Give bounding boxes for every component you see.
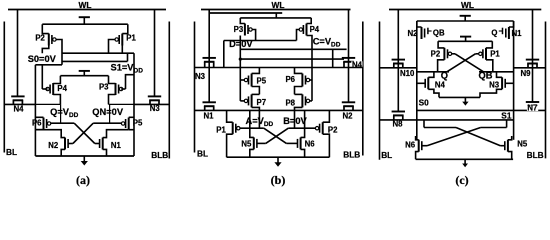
wire row BL-Q (a) xyxy=(4,103,35,105)
caption (b) xyxy=(271,173,286,187)
caption (c) xyxy=(455,173,468,187)
transistor N10 (c) xyxy=(392,60,405,68)
label S0=0V (a) xyxy=(28,54,57,64)
label P2 (b) xyxy=(328,126,338,135)
wire P1 source (b) xyxy=(227,110,233,122)
wire P2 drain (c) xyxy=(438,60,445,72)
wire P4 gate lead (a) xyxy=(42,88,47,90)
wire VDD rail (c top) xyxy=(417,20,514,22)
label P2 (a) xyxy=(35,34,45,43)
wire N4 source up (c) xyxy=(428,72,434,78)
wire P8 drain / node B drop (b) xyxy=(295,107,303,128)
transistor P1 (c) xyxy=(479,48,486,60)
wire P1 drain (a) xyxy=(121,46,123,54)
wire P6 drain (a) xyxy=(35,129,43,131)
wire WL drop left (a) xyxy=(17,10,19,97)
node S1 wire right (a) xyxy=(62,53,128,61)
power VDD (a top) xyxy=(79,17,90,24)
wire N6 gate lead (b) xyxy=(286,142,297,144)
wire P2 gate lead (c) xyxy=(452,53,455,55)
wire P2 drain (b) xyxy=(323,134,330,157)
transistor P4 (a) xyxy=(46,83,53,95)
transistor N6 (b) xyxy=(298,137,301,149)
transistor N5 (c) xyxy=(505,140,508,152)
transistor N2 (b) xyxy=(342,102,355,110)
svg-text:QB: QB xyxy=(479,71,493,81)
wire row BLB side (c) xyxy=(514,67,546,69)
wire N1 gate lead (a) xyxy=(95,143,100,145)
transistor N7 (c) xyxy=(526,102,539,110)
wire BL (a) xyxy=(3,22,5,153)
svg-text:N1: N1 xyxy=(204,111,215,120)
transistor N1 (c) xyxy=(506,27,509,39)
label N2 (a) xyxy=(48,141,59,150)
node QB wire (c) xyxy=(479,71,514,73)
wire N1 source (c) xyxy=(509,21,514,27)
svg-text:P3: P3 xyxy=(99,83,109,92)
power VDD stem (b) xyxy=(275,13,277,18)
wire right gate column (b) xyxy=(311,59,313,101)
wire P5 drain (b) xyxy=(252,87,260,95)
wire P6 gate lead (b) xyxy=(310,79,312,81)
wire X right horiz (c) xyxy=(481,127,507,129)
label WL (b) xyxy=(272,0,285,10)
cross wire to N5 gate (c) xyxy=(456,128,500,146)
wire P4 gate to D (b) xyxy=(297,30,300,41)
wire long left column (c) xyxy=(416,21,418,140)
svg-text:BLB: BLB xyxy=(151,150,168,160)
wire N5 drain up (b) xyxy=(250,110,254,137)
label N3 (a) xyxy=(150,104,161,113)
svg-text:P6: P6 xyxy=(32,118,42,127)
label BL (c) xyxy=(381,150,392,160)
wire N5 drain up (c) xyxy=(508,136,512,140)
wire P5 source (a) xyxy=(129,116,134,118)
wire WL drop left (c) xyxy=(397,10,399,112)
label N4 (b) xyxy=(351,60,362,69)
label QN=0V (a) xyxy=(92,107,124,117)
svg-text:N4: N4 xyxy=(435,81,446,90)
svg-text:N6: N6 xyxy=(405,140,416,149)
transistor P5 (b) xyxy=(244,74,251,87)
wire P1 source (c) xyxy=(486,41,492,48)
wire P5 source (b) xyxy=(252,68,260,74)
transistor N4 (a) xyxy=(11,96,24,104)
svg-text:N3: N3 xyxy=(489,81,500,90)
wire bottom rail (b) xyxy=(227,156,330,158)
wire P6 source (a) xyxy=(35,116,43,118)
label P7 (b) xyxy=(257,98,267,107)
label P1 (c) xyxy=(490,50,500,59)
wire P3 drain (a) xyxy=(109,95,116,105)
label P2 (c) xyxy=(431,50,441,59)
wire P1 source (a) xyxy=(122,24,128,33)
node wire gates (b) xyxy=(240,58,344,60)
transistor P5 (a) xyxy=(121,118,128,130)
label S1=VDD (a) xyxy=(111,63,144,75)
wire D drop to N3 row (b) xyxy=(223,41,225,68)
svg-text:P4: P4 xyxy=(57,84,67,93)
wire WL drop right (a) xyxy=(154,10,156,97)
node N8 row (c) xyxy=(380,119,514,121)
label P1 (a) xyxy=(126,34,136,43)
transistor N6 (c) xyxy=(419,140,422,152)
transistor P4 (b) xyxy=(299,24,306,36)
wire P3 gate column (a) xyxy=(126,75,135,89)
label N9 (c) xyxy=(521,69,532,78)
node QN wire (a) xyxy=(109,103,135,105)
transistor N1 (b) xyxy=(203,102,216,110)
label BLB (a) xyxy=(151,150,168,160)
transistor N3 (c) xyxy=(502,77,505,89)
label P5 (a) xyxy=(133,118,143,127)
wire P1 drain (b) xyxy=(227,134,233,157)
wire X left drop (c) xyxy=(423,120,425,128)
wire N6 gate lead (c) xyxy=(422,145,427,147)
svg-text:P2: P2 xyxy=(431,50,441,59)
label N3 (c) xyxy=(489,81,500,90)
wire P2 source (c) xyxy=(438,41,444,48)
label P3 (a) xyxy=(99,83,109,92)
label N1 (a) xyxy=(111,141,122,150)
wire WL drop left (b) xyxy=(208,10,210,103)
svg-text:P2: P2 xyxy=(328,126,338,135)
wire WL drop right (c) xyxy=(532,10,534,103)
wire bottom rail (c) xyxy=(416,158,513,160)
wire X left horiz (c) xyxy=(424,127,456,129)
transistor P6 (b) xyxy=(302,74,309,87)
transistor P2 (a) xyxy=(49,34,56,46)
svg-text:P5: P5 xyxy=(257,77,267,86)
cross wire to N6 gate (c) xyxy=(427,128,481,146)
svg-text:N7: N7 xyxy=(527,104,537,113)
wire N3 drain down (c) xyxy=(480,89,502,97)
wire P2 gate to S nodes (a) xyxy=(56,40,62,65)
wire C drop to N4 row (b) xyxy=(332,49,334,67)
label N4 (a) xyxy=(14,104,25,113)
label A=VDD (b) xyxy=(246,116,274,128)
svg-text:P1: P1 xyxy=(216,126,226,135)
wire virtual gnd (c) xyxy=(439,96,480,98)
transistor P8 (b) xyxy=(302,94,309,107)
cross wire Q to N1 gate (a) xyxy=(74,123,95,143)
wire bottom rail (a) xyxy=(35,155,134,157)
wire N6 source (c) xyxy=(416,152,419,160)
wire P7 drain / node A drop (b) xyxy=(252,107,260,128)
svg-text:WL: WL xyxy=(272,0,285,10)
wire left gate column (b) xyxy=(239,36,241,101)
wire N6 drain up (b) xyxy=(301,110,305,137)
wire P6 drain (b) xyxy=(295,87,303,95)
svg-text:D=0V: D=0V xyxy=(229,39,253,49)
label QB (c mid) xyxy=(479,71,493,81)
svg-text:BLB: BLB xyxy=(343,150,360,160)
wire N5 source (c) xyxy=(508,152,512,160)
ground (c bottom) xyxy=(462,159,468,167)
label N4 (c) xyxy=(435,81,446,90)
svg-text:N2: N2 xyxy=(343,111,354,120)
label Q=VDD (a) xyxy=(50,107,79,119)
wire N2 source (c) xyxy=(417,21,422,27)
transistor P2 (b) xyxy=(315,122,322,134)
transistor N2 (c) xyxy=(422,27,425,39)
wire BLB (a) xyxy=(168,22,170,159)
label S0 (c) xyxy=(419,98,430,108)
wire P3 source (b) xyxy=(240,18,245,24)
wire P1 gate (a) xyxy=(109,40,115,54)
label N5 (b) xyxy=(241,140,252,149)
net flag Q (c top) xyxy=(499,28,503,35)
label N3 (b) xyxy=(195,72,206,81)
node C wire (b) xyxy=(240,48,346,50)
label N7 (c) xyxy=(527,104,538,113)
wire N2 gate lead (a) xyxy=(68,143,73,145)
wire P1 gate lead (c) xyxy=(475,53,478,55)
wire P1 drain (c) xyxy=(486,60,493,72)
cross wire B to N5 gate (b) xyxy=(266,128,289,143)
wire P4 gate column (a) xyxy=(41,65,43,89)
transistor N5 (b) xyxy=(254,137,257,149)
wire row2 (b) xyxy=(195,109,363,111)
wire BLB (c) xyxy=(545,22,547,159)
wire P6 source (b) xyxy=(295,68,303,74)
svg-text:S0: S0 xyxy=(419,98,430,108)
wire N6 source (b) xyxy=(301,149,305,157)
node S1 wire left (a) xyxy=(35,64,62,66)
cross wire A to N6 gate (b) xyxy=(264,128,287,143)
label P4 (a) xyxy=(57,84,67,93)
wire P5 drain (a) xyxy=(129,129,134,131)
transistor N9 (c) xyxy=(526,60,539,68)
node Q wire (c) xyxy=(417,71,449,73)
label BLB (c) xyxy=(527,150,544,160)
svg-text:P8: P8 xyxy=(285,98,295,107)
wire N1 source (a) xyxy=(103,149,107,156)
wire P3 gate lead (a) xyxy=(121,88,125,90)
label N5 (c) xyxy=(517,140,528,149)
wire N2 source (a) xyxy=(61,149,65,156)
node S0/S1 row (c) xyxy=(417,109,546,111)
wire BLB (b) xyxy=(362,22,364,156)
svg-text:BLB: BLB xyxy=(527,150,544,160)
label BL (a) xyxy=(6,147,17,157)
svg-text:P2: P2 xyxy=(35,34,45,43)
wire left column Q (a) xyxy=(34,65,36,156)
wire P8 gate lead (b) xyxy=(310,100,312,102)
ground (a) xyxy=(81,156,88,166)
label BLB (b) xyxy=(343,150,360,160)
wire P7 gate lead (b) xyxy=(240,100,244,102)
cross wire P1 gate to Q (c) xyxy=(447,54,476,72)
wire P7 source (b) xyxy=(252,93,260,95)
svg-text:S0=0V: S0=0V xyxy=(28,54,57,64)
label N10 (c) xyxy=(400,69,415,78)
svg-text:Q: Q xyxy=(441,71,448,81)
svg-text:QB: QB xyxy=(433,29,445,38)
wire row QN-BLB (a) xyxy=(134,103,169,105)
power VDD (c top) xyxy=(460,16,471,21)
wire VDD rail (a top) xyxy=(42,23,128,25)
label P6 (b) xyxy=(285,75,295,84)
label WL (a) xyxy=(79,0,92,10)
ground (c mid) xyxy=(462,97,468,105)
wire WL (a) xyxy=(8,9,166,11)
svg-text:(b): (b) xyxy=(271,173,286,187)
label P8 (b) xyxy=(285,98,295,107)
net flag QB (c top) xyxy=(428,28,432,35)
wire P4 drain (b) xyxy=(307,36,313,60)
transistor P1 (a) xyxy=(115,34,122,46)
wire P8 source (b) xyxy=(295,93,303,95)
wire N1 drain up (a) xyxy=(103,130,129,138)
wire P5 gate lead (a) xyxy=(93,122,121,124)
label P5 (b) xyxy=(257,77,267,86)
junction dot (b) xyxy=(239,58,242,61)
label Q (c top) xyxy=(491,29,497,38)
wire P1 gate lead (b) xyxy=(240,127,264,129)
svg-text:(a): (a) xyxy=(76,173,90,187)
label P6 (a) xyxy=(32,118,42,127)
wire P6 gate lead (a) xyxy=(51,122,74,124)
svg-text:P1: P1 xyxy=(126,34,136,43)
node S0 wire (a) xyxy=(62,52,134,54)
svg-text:Q: Q xyxy=(491,29,497,38)
wire P2 source (a) xyxy=(42,24,49,33)
transistor N1 (a) xyxy=(100,138,103,150)
svg-text:QN=0V: QN=0V xyxy=(92,107,124,117)
wire VDD rail (c mid) xyxy=(438,40,492,42)
svg-text:P1: P1 xyxy=(490,50,500,59)
transistor P1 (b) xyxy=(233,122,240,134)
svg-text:WL: WL xyxy=(79,0,92,10)
node D wire (b) xyxy=(224,40,297,42)
wire long right column (c) xyxy=(513,21,515,140)
label P3 (b) xyxy=(234,25,244,34)
label N1 (c) xyxy=(512,29,523,38)
cross wire P2 gate to QB (c) xyxy=(455,54,484,72)
label S1 (c) xyxy=(501,111,512,121)
wire VDD rail (a inner) xyxy=(60,75,108,77)
svg-text:N5: N5 xyxy=(241,140,252,149)
transistor P6 (a) xyxy=(44,118,51,130)
label BL (b) xyxy=(197,149,208,159)
svg-text:N6: N6 xyxy=(305,140,316,149)
svg-text:P3: P3 xyxy=(234,25,244,34)
wire row BL side (c) xyxy=(380,67,417,69)
wire WL (c) xyxy=(389,9,541,11)
label D=0V (b) xyxy=(229,39,253,49)
svg-text:N1: N1 xyxy=(111,141,122,150)
label N6 (b) xyxy=(305,140,316,149)
power VDD (a inner) xyxy=(79,71,90,76)
svg-text:P6: P6 xyxy=(285,75,295,84)
transistor P3 (b) xyxy=(245,24,252,36)
svg-text:N8: N8 xyxy=(393,119,404,128)
label N6 (c) xyxy=(405,140,416,149)
wire P4 source (b) xyxy=(307,18,312,24)
transistor N3 (a) xyxy=(148,96,161,104)
wire BL (b) xyxy=(194,22,196,153)
label B=0V (b) xyxy=(283,116,307,126)
label QB (c top) xyxy=(433,29,445,38)
svg-text:P4: P4 xyxy=(310,25,320,34)
wire P3 gate to D (b) xyxy=(252,30,255,41)
wire P5 gate lead (b) xyxy=(240,79,244,81)
wire right column QN (a) xyxy=(133,53,135,156)
wire P2 drain (a) xyxy=(42,46,49,54)
wire P4 drain (a) xyxy=(53,95,60,105)
wire VDD rail (b) xyxy=(240,17,311,19)
wire P3 source (a) xyxy=(109,76,116,84)
label P4 (b) xyxy=(310,25,320,34)
wire N2 drain up (a) xyxy=(35,130,65,138)
wire Q drop to P6 gate (a) xyxy=(60,104,62,123)
svg-text:N9: N9 xyxy=(521,69,532,78)
wire P2 source (b) xyxy=(323,110,330,122)
svg-text:N10: N10 xyxy=(400,69,415,78)
wire N3 gate lead (c) xyxy=(505,82,513,84)
wire N5 gate lead (c) xyxy=(500,145,505,147)
wire N6 drain up (c) xyxy=(416,136,419,140)
transistor N2 (a) xyxy=(65,138,68,150)
wire P2 gate lead (b) xyxy=(288,127,315,129)
label WL (c) xyxy=(461,0,474,10)
transistor P7 (b) xyxy=(244,94,251,107)
wire QN drop to P5 gate (a) xyxy=(109,104,111,123)
svg-text:N5: N5 xyxy=(517,140,528,149)
wire N4 gate lead (c) xyxy=(417,82,426,84)
svg-text:(c): (c) xyxy=(455,173,468,187)
wire X right drop (c) xyxy=(506,120,508,128)
label N1 (b) xyxy=(204,111,215,120)
node Q wire (a) xyxy=(35,103,60,105)
wire N5 source (b) xyxy=(250,149,254,157)
label N8 (c) xyxy=(393,119,404,128)
svg-text:P5: P5 xyxy=(133,118,143,127)
transistor N8 (c) xyxy=(392,112,405,120)
wire BL (c) xyxy=(379,22,381,160)
svg-text:N2: N2 xyxy=(48,141,59,150)
power VDD (c mid) xyxy=(460,37,471,42)
transistor N4 (b) xyxy=(342,58,355,68)
wire WL drop right (b) xyxy=(348,10,350,103)
transistor N4 (c) xyxy=(425,77,428,89)
wire N4 drain down (c) xyxy=(428,89,439,97)
label N2 (c) xyxy=(408,29,419,38)
svg-text:N4: N4 xyxy=(14,104,25,113)
svg-text:BL: BL xyxy=(6,147,17,157)
label P1 (b) xyxy=(216,126,226,135)
svg-text:WL: WL xyxy=(461,0,474,10)
transistor P2 (c) xyxy=(444,48,451,60)
power VDD line (b) xyxy=(209,12,282,14)
cross wire QN to N2 gate (a) xyxy=(73,123,93,143)
wire P4 source (a) xyxy=(53,76,60,84)
label Q (c mid) xyxy=(441,71,448,81)
svg-text:BL: BL xyxy=(381,150,392,160)
transistor N3 (b) xyxy=(203,58,216,68)
wire WL (b) xyxy=(201,9,351,11)
svg-text:P7: P7 xyxy=(257,98,267,107)
label C=VDD (b) xyxy=(313,36,341,48)
label N2 (b) xyxy=(343,111,354,120)
caption (a) xyxy=(76,173,90,187)
ground (b) xyxy=(274,157,281,167)
wire N3 source up (c) xyxy=(497,72,503,78)
transistor P3 (a) xyxy=(116,83,123,95)
wire N5 gate lead (b) xyxy=(257,142,266,144)
svg-text:BL: BL xyxy=(197,149,208,159)
